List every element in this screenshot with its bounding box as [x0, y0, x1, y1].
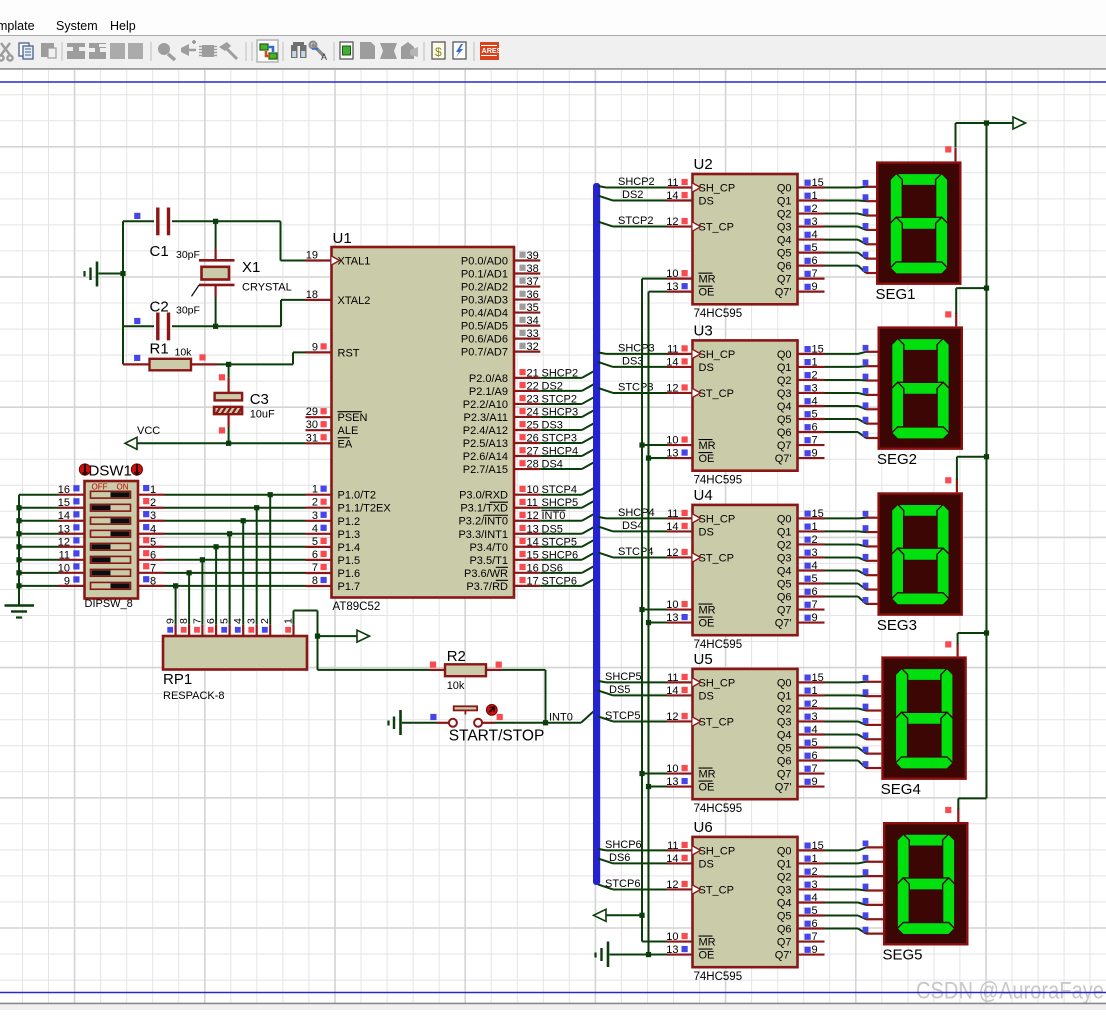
svg-text:4: 4 [812, 724, 818, 736]
DSW1 pin 12 (left) [58, 536, 85, 548]
wire net SHCP4 bus to U4 [598, 507, 667, 519]
svg-text:Q2: Q2 [777, 209, 792, 221]
U1 pin 28 P2.7/A15 net DS4 [463, 459, 594, 477]
svg-text:DS: DS [699, 858, 714, 870]
wire U5 Q1 to SEG4 pin [825, 689, 882, 696]
svg-text:OFF: OFF [92, 483, 108, 492]
U3 pin 4 Q4 [777, 395, 825, 413]
svg-text:12: 12 [666, 216, 678, 228]
svg-text:7: 7 [812, 931, 818, 943]
RP1 pin 9 [165, 618, 177, 636]
wire net STCP3 bus to U3 [598, 381, 667, 393]
svg-text:U1: U1 [333, 230, 352, 247]
svg-text:14: 14 [666, 853, 678, 865]
toolbar icon: zoom (disabled) [158, 43, 175, 60]
svg-text:Q1: Q1 [777, 858, 792, 870]
DSW1 switch 8 [91, 582, 131, 589]
svg-text:Q2: Q2 [777, 703, 792, 715]
svg-text:STCP5: STCP5 [605, 710, 640, 722]
U6 pin 13 OE [666, 944, 714, 962]
svg-text:7: 7 [312, 562, 318, 574]
svg-text:Q6: Q6 [777, 261, 792, 273]
svg-text:12: 12 [666, 382, 678, 394]
wire U2 Q3 to SEG1 pin [825, 223, 877, 230]
svg-text:12: 12 [527, 510, 539, 522]
svg-text:5: 5 [812, 242, 818, 254]
svg-text:P3.5/T1: P3.5/T1 [469, 555, 508, 567]
svg-text:OE: OE [699, 618, 715, 630]
DSW1 switch 2 [91, 504, 131, 511]
U4 pin 5 Q5 [777, 573, 825, 591]
wire DSW left rail to ground [16, 495, 58, 606]
U1 pin 2 P1.1/T2EX [306, 497, 392, 515]
svg-text:3: 3 [812, 711, 818, 723]
U1 pin 7 P1.6 [306, 562, 361, 580]
wire DSW1.3 to U1 P1.2 and RP1 [165, 518, 306, 625]
svg-text:Q7': Q7' [775, 618, 792, 630]
svg-text:Q2: Q2 [777, 539, 792, 551]
svg-text:9: 9 [64, 575, 70, 587]
DSW1 switch 7 [91, 569, 131, 576]
svg-text:2: 2 [812, 369, 818, 381]
capacitor C2 [123, 299, 216, 341]
svg-text:RESPACK-8: RESPACK-8 [163, 690, 225, 702]
DSW1 switch 5 [91, 543, 131, 550]
svg-text:1: 1 [312, 484, 318, 496]
U2 pin 11 SH_CP [667, 177, 735, 195]
DSW1 pin 3 (right) [138, 510, 165, 522]
svg-text:ST_CP: ST_CP [699, 884, 734, 896]
wire U2 Q5 to SEG1 pin [825, 252, 877, 259]
svg-text:21: 21 [527, 367, 539, 379]
U2 pin 7 Q7 [777, 268, 825, 286]
svg-text:P0.7/AD7: P0.7/AD7 [461, 347, 508, 359]
U1 pin 39 P0.0/AD0 [461, 250, 540, 268]
svg-text:SHCP6: SHCP6 [605, 839, 642, 851]
wire net DS3 bus to U3 [598, 355, 667, 367]
svg-text:26: 26 [527, 433, 539, 445]
U2 pin 13 OE [666, 281, 714, 299]
svg-text:Q0: Q0 [777, 845, 792, 857]
svg-text:P3.6/WR: P3.6/WR [464, 568, 508, 580]
svg-text:9: 9 [812, 281, 818, 293]
wire U6 Q5 to SEG5 pin [825, 912, 884, 919]
U4 pin 3 Q3 [777, 547, 825, 565]
svg-text:P0.4/AD4: P0.4/AD4 [461, 308, 508, 320]
svg-text:Q4: Q4 [777, 235, 792, 247]
wire U6 Q4 to SEG5 pin [825, 898, 884, 905]
U1 pin 29 PSEN [306, 406, 368, 424]
svg-text:U3: U3 [694, 322, 713, 339]
svg-text:Q7': Q7' [775, 950, 792, 962]
7-segment display SEG4 [881, 658, 966, 798]
wire RP1 pin1 to VCC and R2 [294, 611, 430, 670]
svg-text:13: 13 [527, 523, 539, 535]
U1 pin 24 P2.3/A11 net SHCP3 [464, 406, 594, 424]
U1 pin 19 XTAL1 [306, 250, 371, 268]
U6 pin 4 Q4 [777, 892, 825, 910]
ground (button) [389, 710, 437, 735]
U1 pin 27 P2.6/A14 net SHCP4 [463, 446, 594, 464]
svg-text:Q0: Q0 [777, 677, 792, 689]
bus (blue vertical) [593, 183, 600, 885]
U1 pin 25 P2.4/A12 net DS3 [463, 419, 594, 437]
svg-text:34: 34 [527, 315, 539, 327]
svg-text:DS5: DS5 [609, 684, 630, 696]
svg-text:6: 6 [150, 549, 156, 561]
wire U3 Q5 to SEG2 pin [825, 417, 878, 424]
svg-text:3: 3 [812, 382, 818, 394]
svg-text:7: 7 [812, 435, 818, 447]
wire U2 Q1 to SEG1 pin [825, 194, 877, 201]
svg-text:7: 7 [812, 763, 818, 775]
svg-text:X1: X1 [242, 259, 260, 276]
shift register U5 74HC595 body [693, 651, 798, 815]
svg-text:P2.4/A12: P2.4/A12 [463, 425, 508, 437]
RP1 pin 6 [205, 618, 217, 636]
svg-text:P0.1/AD1: P0.1/AD1 [461, 269, 508, 281]
svg-text:5: 5 [812, 737, 818, 749]
svg-text:39: 39 [527, 250, 539, 262]
U6 pin 6 Q6 [777, 918, 825, 936]
wire U6 Q0 to SEG5 pin [825, 841, 884, 851]
wire U5 Q2 to SEG4 pin [825, 704, 882, 711]
svg-text:Q4: Q4 [777, 565, 792, 577]
svg-text:2: 2 [812, 866, 818, 878]
svg-text:30: 30 [306, 419, 318, 431]
svg-text:14: 14 [527, 536, 539, 548]
svg-text:C3: C3 [250, 391, 269, 408]
svg-text:18: 18 [306, 289, 318, 301]
svg-text:10: 10 [527, 484, 539, 496]
U1 pin 14 P3.4/T0 net STCP5 [469, 536, 593, 554]
svg-text:24: 24 [527, 406, 539, 418]
svg-text:9: 9 [312, 341, 318, 353]
svg-text:VCC: VCC [137, 425, 160, 437]
svg-text:3: 3 [812, 879, 818, 891]
svg-text:29: 29 [306, 406, 318, 418]
svg-text:AT89C52: AT89C52 [333, 601, 381, 613]
toolbar icon: grey block 1 [67, 43, 85, 59]
svg-text:P3.0/RXD: P3.0/RXD [459, 490, 508, 502]
U5 pin 7 Q7 [777, 763, 825, 781]
U3 pin 14 DS [666, 356, 714, 374]
svg-text:Q7: Q7 [777, 440, 792, 452]
U2 pin 3 Q3 [777, 216, 825, 234]
svg-text:7: 7 [812, 599, 818, 611]
U4 pin 6 Q6 [777, 586, 825, 604]
node: crystal left rail [120, 221, 125, 364]
svg-text:10: 10 [666, 268, 678, 280]
U1 pin 37 P0.2/AD2 [461, 276, 540, 294]
U1 pin 34 P0.5/AD5 [461, 315, 540, 333]
svg-text:ARES: ARES [482, 46, 502, 55]
svg-text:SHCP2: SHCP2 [618, 176, 655, 188]
toolbar [0, 36, 1106, 69]
svg-text:CRYSTAL: CRYSTAL [242, 282, 292, 294]
U5 pin 11 SH_CP [667, 672, 735, 690]
U1 pin 9 RST [306, 341, 360, 359]
svg-text:STCP2: STCP2 [618, 215, 653, 227]
svg-text:22: 22 [527, 380, 539, 392]
svg-text:4: 4 [812, 395, 818, 407]
svg-text:R1: R1 [150, 341, 169, 358]
svg-text:13: 13 [666, 448, 678, 460]
svg-text:CSDN @AuroraFaye: CSDN @AuroraFaye [916, 978, 1104, 1005]
svg-text:1: 1 [812, 356, 818, 368]
svg-text:6: 6 [812, 918, 818, 930]
DSW1 switch 6 [91, 556, 131, 563]
toolbar icon: doc X grey [380, 43, 397, 59]
svg-text:U4: U4 [694, 487, 713, 504]
power terminal (VCC top arrow) [1013, 117, 1026, 129]
U4 pin 12 ST_CP [666, 547, 734, 565]
U5 pin 9 Q7' [775, 776, 825, 794]
svg-text:Q5: Q5 [777, 579, 792, 591]
shift register U6 74HC595 body [693, 819, 798, 983]
wire R1 to RST [217, 352, 306, 367]
wire U3 Q3 to SEG2 pin [825, 388, 878, 395]
wire DSW1.7 to U1 P1.6 and RP1 [165, 570, 306, 625]
toolbar icon: bom green doc [340, 42, 353, 59]
svg-text:11: 11 [667, 343, 678, 355]
wire U4 Q2 to SEG3 pin [825, 540, 878, 547]
toolbar separator [61, 42, 63, 61]
U4 pin 1 Q1 [777, 521, 825, 539]
svg-text:15: 15 [812, 508, 824, 520]
svg-text:DSW1: DSW1 [89, 463, 132, 480]
U3 pin 12 ST_CP [666, 382, 734, 400]
svg-text:74HC595: 74HC595 [694, 803, 743, 815]
svg-text:P3.4/T0: P3.4/T0 [469, 542, 508, 554]
svg-text:4: 4 [812, 229, 818, 241]
U6 pin 5 Q5 [777, 905, 825, 923]
svg-text:Q7: Q7 [777, 605, 792, 617]
svg-text:SEG1: SEG1 [876, 286, 916, 303]
svg-text:2: 2 [812, 698, 818, 710]
svg-text:25: 25 [527, 419, 539, 431]
svg-text:OE: OE [699, 950, 715, 962]
7-segment display SEG2 [877, 328, 962, 468]
svg-text:ON: ON [117, 483, 129, 492]
wire U4 Q5 to SEG3 pin [825, 583, 878, 590]
U3 pin 15 Q0 [777, 343, 825, 361]
svg-text:ST_CP: ST_CP [699, 716, 734, 728]
shift register U2 74HC595 body [693, 156, 798, 320]
svg-text:P1.2: P1.2 [338, 516, 361, 528]
U2 pin 15 Q0 [777, 177, 825, 195]
svg-text:Q5: Q5 [777, 743, 792, 755]
svg-text:System: System [56, 19, 98, 33]
svg-text:STCP6: STCP6 [605, 878, 640, 890]
svg-text:SEG4: SEG4 [881, 781, 921, 798]
wire XTAL2 [216, 300, 306, 326]
svg-text:P0.3/AD3: P0.3/AD3 [461, 295, 508, 307]
DSW1 switch 3 [91, 517, 131, 524]
wire net STCP4 bus to U4 [598, 546, 667, 558]
ground (DSW rail) [5, 606, 35, 618]
wire U5 Q4 to SEG4 pin [825, 732, 882, 739]
svg-text:XTAL1: XTAL1 [338, 256, 371, 268]
svg-text:DS6: DS6 [609, 852, 630, 864]
wire U2 Q6 to SEG1 pin [825, 266, 877, 273]
sheet border top [0, 81, 1106, 83]
U6 pin 1 Q1 [777, 853, 825, 871]
svg-text:P1.4: P1.4 [338, 542, 361, 554]
U1 pin 10 P3.0/RXD net STCP4 [459, 484, 593, 502]
U5 pin 5 Q5 [777, 737, 825, 755]
RP1 pin 3 [246, 618, 258, 636]
svg-text:P2.1/A9: P2.1/A9 [469, 386, 508, 398]
svg-text:Q5: Q5 [777, 414, 792, 426]
DSW1 pin 8 (right) [138, 575, 165, 587]
resistor pack RP1 [163, 636, 307, 702]
svg-text:7: 7 [812, 268, 818, 280]
wire DSW1.8 to U1 P1.7 and RP1 [165, 583, 306, 625]
svg-text:Q3: Q3 [777, 716, 792, 728]
wire DSW1.6 to U1 P1.5 and RP1 [165, 557, 306, 625]
svg-text:Q7: Q7 [777, 769, 792, 781]
svg-text:2: 2 [312, 497, 318, 509]
svg-text:DS: DS [699, 690, 714, 702]
svg-text:Q2: Q2 [777, 375, 792, 387]
svg-text:5: 5 [812, 905, 818, 917]
svg-text:1: 1 [812, 685, 818, 697]
svg-text:Q7': Q7' [775, 782, 792, 794]
svg-text:ST_CP: ST_CP [699, 552, 734, 564]
toolbar icon: connector plus [181, 40, 196, 56]
U6 pin 12 ST_CP [666, 879, 734, 897]
svg-text:P2.2/A10: P2.2/A10 [463, 399, 508, 411]
svg-text:SH_CP: SH_CP [699, 513, 736, 525]
push button START/STOP [430, 705, 544, 745]
U2 pin 2 Q2 [777, 203, 825, 221]
U6 pin 11 SH_CP [667, 840, 735, 858]
U1 pin 11 P3.1/TXD net SHCP5 [460, 497, 593, 514]
SEG1 common anode pin [945, 146, 955, 161]
svg-text:Q5: Q5 [777, 911, 792, 923]
RP1 pin 2 [259, 618, 271, 636]
svg-text:MR: MR [699, 769, 716, 781]
resistor R1 [123, 341, 217, 371]
svg-text:8: 8 [178, 618, 190, 624]
U1 pin 30 ALE [306, 419, 359, 437]
capacitor C1 [123, 208, 216, 262]
U5 pin 6 Q6 [777, 750, 825, 768]
svg-text:15: 15 [812, 177, 824, 189]
U2 pin 5 Q5 [777, 242, 825, 260]
DSW1 pin 5 (right) [138, 536, 165, 548]
U1 pin 8 P1.7 [306, 575, 361, 593]
svg-text:Q6: Q6 [777, 427, 792, 439]
U1 pin 21 P2.0/A8 net SHCP2 [469, 367, 594, 385]
svg-text:16: 16 [527, 562, 539, 574]
wire U5 Q5 to SEG4 pin [825, 747, 882, 754]
svg-text:13: 13 [666, 776, 678, 788]
svg-text:36: 36 [527, 289, 539, 301]
svg-text:OE: OE [699, 453, 715, 465]
DSW1 pin 1 (right) [138, 484, 165, 496]
U1 pin 26 P2.5/A13 net STCP3 [463, 433, 594, 451]
svg-text:2: 2 [812, 534, 818, 546]
svg-text:RP1: RP1 [163, 671, 192, 688]
svg-text:6: 6 [812, 255, 818, 267]
bottom bar [0, 1003, 1106, 1010]
svg-text:P1.5: P1.5 [338, 555, 361, 567]
DSW1 pin 7 (right) [138, 562, 165, 574]
resistor R2 [429, 648, 502, 692]
svg-text:9: 9 [812, 944, 818, 956]
U6 pin 2 Q2 [777, 866, 825, 884]
U2 pin 12 ST_CP [666, 216, 734, 234]
U6 pin 15 Q0 [777, 840, 825, 858]
op-amp U1 AT89C52 MCU body [332, 230, 515, 613]
U2 pin 9 Q7' [775, 281, 825, 299]
U4 pin 10 MR [666, 599, 715, 617]
toolbar separator double [245, 42, 247, 61]
svg-text:Q1: Q1 [777, 362, 792, 374]
svg-text:MR: MR [699, 440, 716, 452]
toolbar icon: chip [199, 45, 217, 57]
toolbar separator [473, 42, 475, 61]
svg-text:OE: OE [699, 782, 715, 794]
svg-text:33: 33 [527, 328, 539, 340]
wire net STCP2 bus to U2 [598, 215, 667, 227]
svg-text:10: 10 [58, 562, 70, 574]
svg-text:7: 7 [150, 562, 156, 574]
svg-text:1: 1 [150, 484, 156, 496]
svg-text:Help: Help [110, 19, 136, 33]
7-segment display SEG3 [877, 494, 962, 634]
svg-text:MR: MR [699, 274, 716, 286]
wire net SHCP5 bus to U5 [598, 671, 667, 683]
wire net DS6 bus to U6 [598, 852, 667, 864]
svg-text:Q0: Q0 [777, 183, 792, 195]
svg-text:5: 5 [150, 536, 156, 548]
svg-text:11: 11 [667, 840, 678, 852]
svg-text:74HC595: 74HC595 [694, 474, 743, 486]
wire U5 Q3 to SEG4 pin [825, 718, 882, 725]
svg-text:13: 13 [666, 944, 678, 956]
svg-text:P2.6/A14: P2.6/A14 [463, 451, 508, 463]
wire U3 Q1 to SEG2 pin [825, 359, 878, 367]
wire U3 Q0 to SEG2 pin [825, 345, 878, 354]
svg-text:U6: U6 [694, 819, 713, 836]
DSW1 pin 6 (right) [138, 549, 165, 561]
svg-text:6: 6 [812, 750, 818, 762]
svg-text:12: 12 [666, 879, 678, 891]
svg-text:4: 4 [812, 560, 818, 572]
wire U4 Q1 to SEG3 pin [825, 525, 878, 532]
svg-text:Q7': Q7' [775, 287, 792, 299]
svg-text:12: 12 [58, 536, 70, 548]
svg-text:14: 14 [666, 521, 678, 533]
svg-text:3: 3 [812, 547, 818, 559]
svg-text:10: 10 [666, 599, 678, 611]
U1 pin 23 P2.2/A10 net STCP2 [463, 393, 594, 411]
svg-text:5: 5 [812, 409, 818, 421]
wire DSW1.5 to U1 P1.4 and RP1 [165, 544, 306, 625]
U3 pin 11 SH_CP [667, 343, 735, 361]
toolbar icon: bill doc [432, 42, 445, 59]
DSW1 switch 1 [91, 491, 131, 498]
svg-text:32: 32 [527, 341, 539, 353]
svg-text:Q0: Q0 [777, 349, 792, 361]
wire VCC rail (displays) [956, 120, 1014, 809]
svg-text:SEG5: SEG5 [883, 947, 923, 964]
U1 pin 16 P3.6/WR net DS6 [464, 562, 594, 580]
svg-text:30pF: 30pF [176, 305, 200, 317]
